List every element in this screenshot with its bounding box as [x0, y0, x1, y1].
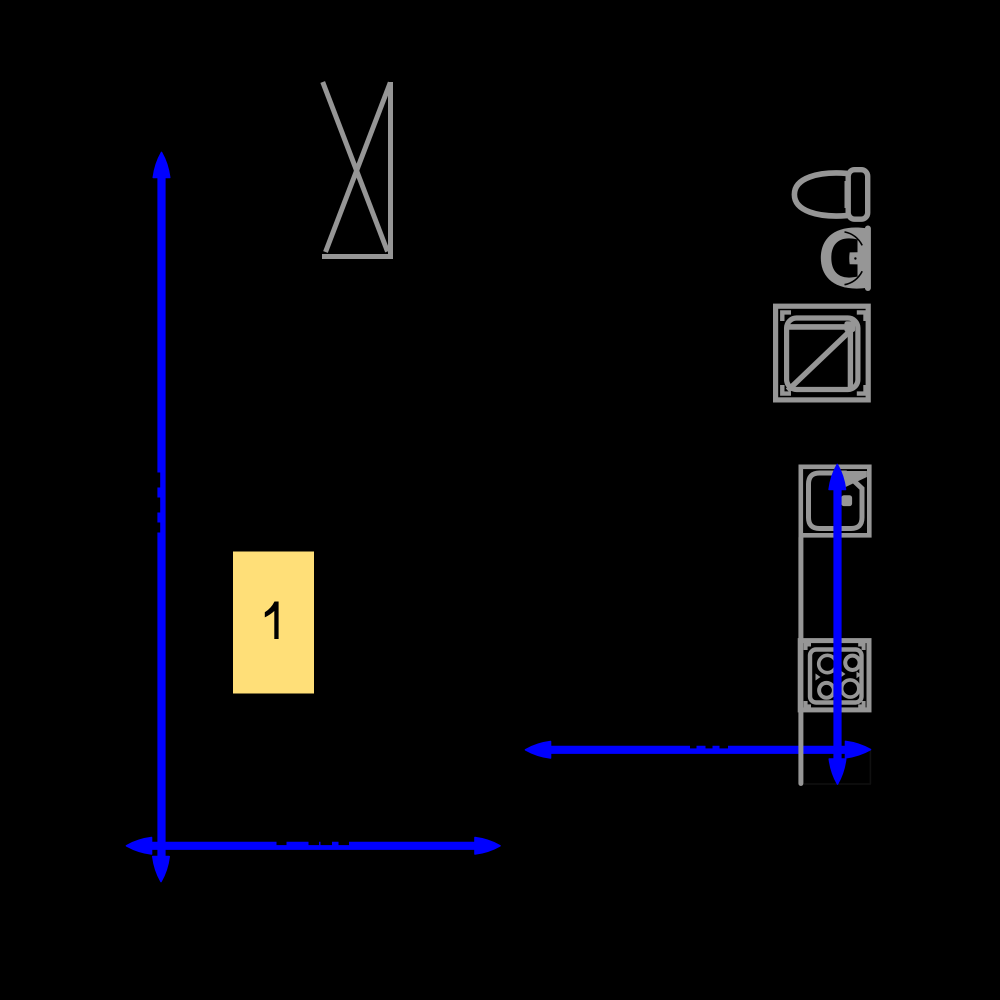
stove inner rounded square — [810, 650, 862, 703]
stove outer square — [800, 641, 869, 710]
left arrowhead — [127, 838, 152, 854]
stove burner bottom-right — [842, 680, 859, 697]
stove spark marks — [816, 671, 862, 681]
faint wall line horizontal — [804, 783, 871, 785]
stove burner top-left — [819, 655, 836, 672]
faint wall line vertical — [869, 750, 871, 784]
up arrowhead — [829, 465, 845, 490]
down arrowhead — [829, 759, 845, 784]
stove burner top-right — [845, 656, 859, 670]
shower door right bar — [848, 332, 853, 390]
washbasin faucet dot — [854, 257, 856, 259]
room label 1 (yellow rectangle) — [233, 552, 314, 694]
toilet bowl — [794, 173, 847, 216]
stove burner bottom-left — [819, 683, 834, 698]
shower tray inner rounded square — [787, 318, 858, 390]
shower door diagonal — [788, 332, 850, 391]
shower door knob — [844, 321, 855, 332]
stove corner marks — [806, 645, 864, 707]
washbasin rim gap top — [845, 232, 863, 246]
dimension line vertical right — [829, 465, 846, 785]
left arrowhead — [526, 742, 551, 758]
room number text 1 — [265, 602, 279, 640]
shower tray outer square — [776, 306, 869, 400]
kitchen sink outer square — [801, 467, 870, 536]
kitchen sink faucet — [841, 495, 852, 506]
toilet bowl back edge — [844, 181, 849, 208]
hidden black dimension text bottoms (notches over right line) — [690, 745, 728, 748]
down arrowhead — [153, 857, 169, 882]
dimension line horizontal bottom-left — [127, 838, 501, 854]
dimension line vertical left — [153, 153, 170, 882]
right arrowhead — [475, 838, 500, 854]
right arrowhead — [846, 741, 871, 757]
washbasin inner bowl (black fan) — [831, 238, 857, 277]
door/window X symbol top — [322, 82, 393, 257]
washbasin wall rim — [865, 229, 871, 289]
hidden black dimension text bottoms (notches over line) — [277, 841, 350, 846]
up arrowhead — [153, 153, 169, 178]
dimension line horizontal right — [526, 741, 871, 758]
kitchen sink basin — [809, 473, 863, 529]
washbasin rim gap bottom — [845, 271, 863, 285]
toilet cistern — [848, 170, 868, 220]
kitchen sink drainer wedge — [842, 471, 867, 488]
shower door top bar — [787, 324, 846, 330]
shower corner marks — [782, 312, 865, 393]
kitchen counter edge line — [798, 538, 803, 784]
hidden black dimension text bottoms (notches on left vertical line) — [157, 473, 161, 533]
washbasin body fill — [821, 228, 867, 289]
